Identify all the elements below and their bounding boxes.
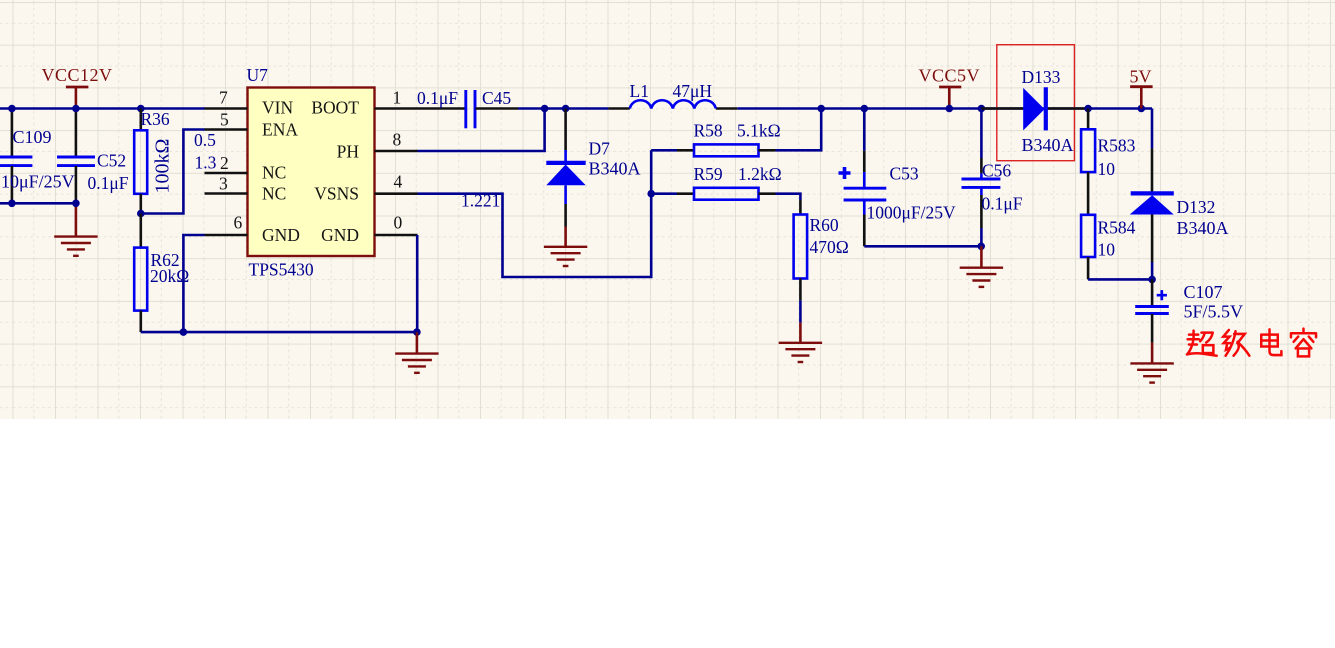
- power VCC5V: [919, 66, 981, 109]
- diode D133 B340A: [981, 67, 1088, 155]
- svg-text:GND: GND: [321, 225, 359, 245]
- resistor R59 1.2k: [651, 164, 800, 200]
- svg-text:C109: C109: [13, 127, 52, 147]
- capacitor C52: [57, 109, 129, 204]
- svg-text:L1: L1: [630, 81, 649, 101]
- svg-text:D132: D132: [1177, 197, 1216, 217]
- svg-text:1.221: 1.221: [461, 191, 500, 211]
- ground (below R60): [779, 323, 822, 362]
- svg-text:10μF/25V: 10μF/25V: [1, 172, 75, 192]
- wire: bottom ground rail: [141, 331, 417, 334]
- capacitor C107 5F/5.5V supercap: [1135, 279, 1243, 342]
- svg-text:VCC12V: VCC12V: [42, 65, 113, 85]
- svg-text:D133: D133: [1022, 67, 1061, 87]
- ground (below D7): [544, 227, 587, 267]
- svg-text:47μH: 47μH: [673, 81, 713, 101]
- wire: ENA divider path: [141, 130, 205, 214]
- resistor R583 10: [1081, 109, 1136, 215]
- pin 1 BOOT: [375, 107, 418, 110]
- wire: output cap bottom rail: [864, 245, 981, 248]
- svg-text:R58: R58: [694, 121, 723, 141]
- ground (below C107): [1130, 343, 1173, 383]
- svg-text:1000μF/25V: 1000μF/25V: [867, 203, 956, 223]
- svg-text:0.5: 0.5: [194, 130, 216, 150]
- svg-text:BOOT: BOOT: [311, 98, 359, 118]
- node C53 junction: [861, 105, 869, 113]
- wire: PH pin riser: [418, 109, 545, 152]
- pin 6 GND: [205, 234, 248, 237]
- svg-text:0.1μF: 0.1μF: [417, 88, 458, 108]
- svg-text:1.3: 1.3: [195, 153, 217, 173]
- wire: VSNS feedback path: [418, 150, 652, 277]
- node R58 riser junction: [817, 105, 825, 113]
- svg-text:B340A: B340A: [1177, 218, 1229, 238]
- resistor R584 10: [1081, 215, 1136, 280]
- svg-text:10: 10: [1098, 159, 1116, 179]
- resistor R60 470: [794, 200, 849, 323]
- node junctions on ground rail: [180, 328, 188, 336]
- node R583 junction: [1084, 105, 1092, 113]
- wire: R584 to supercap node: [1088, 278, 1152, 281]
- resistor R62: [134, 214, 189, 333]
- wire: pin 0 to ground rail: [416, 235, 419, 332]
- svg-text:5: 5: [220, 110, 229, 130]
- wire: GND pin 6 path: [183, 235, 204, 332]
- svg-text:7: 7: [219, 88, 228, 108]
- svg-text:3: 3: [219, 174, 228, 194]
- svg-text:GND: GND: [262, 225, 300, 245]
- power 5V: [1130, 67, 1153, 109]
- svg-text:8: 8: [393, 130, 402, 150]
- node supercap junction: [1148, 276, 1156, 284]
- svg-text:C45: C45: [482, 88, 511, 108]
- svg-text:B340A: B340A: [1022, 135, 1074, 155]
- svg-text:C53: C53: [890, 164, 919, 184]
- svg-text:VCC5V: VCC5V: [919, 66, 981, 86]
- annotation 超级电容 (drawn glyphs): [1187, 329, 1316, 357]
- svg-text:4: 4: [394, 172, 403, 192]
- svg-text:5.1kΩ: 5.1kΩ: [737, 121, 781, 141]
- svg-text:R36: R36: [141, 109, 170, 129]
- svg-text:0.1μF: 0.1μF: [88, 173, 129, 193]
- ground (below C52): [54, 203, 97, 256]
- pin 2 NC: [205, 172, 248, 175]
- svg-text:NC: NC: [262, 184, 286, 204]
- sheet background: [0, 0, 1335, 419]
- pin 7 VIN: [205, 107, 248, 110]
- inductor L1 47uH: [630, 81, 716, 109]
- svg-text:C56: C56: [982, 161, 1011, 181]
- capacitor C109: [0, 109, 75, 204]
- svg-text:0: 0: [394, 213, 403, 233]
- svg-text:100kΩ: 100kΩ: [152, 139, 174, 194]
- svg-text:1: 1: [393, 88, 402, 108]
- svg-text:VIN: VIN: [262, 98, 293, 118]
- capacitor C56 0.1uF: [962, 109, 1023, 247]
- IC U7 TPS5430: [247, 65, 375, 280]
- resistor R58 5.1k: [651, 109, 821, 157]
- pin 0 GND: [375, 234, 418, 237]
- wire: switch node rail: [518, 107, 608, 110]
- svg-text:1.2kΩ: 1.2kΩ: [738, 164, 782, 184]
- svg-text:B340A: B340A: [589, 159, 641, 179]
- svg-text:6: 6: [234, 213, 243, 233]
- pin 8 PH: [375, 150, 418, 153]
- pin 5 ENA: [205, 128, 248, 131]
- svg-text:R584: R584: [1098, 218, 1136, 238]
- node switch junctions: [541, 105, 549, 113]
- node 5V junction: [1138, 105, 1146, 113]
- wire: left capacitor bottom rail: [0, 202, 76, 205]
- svg-text:5F/5.5V: 5F/5.5V: [1184, 302, 1244, 322]
- svg-text:R59: R59: [694, 164, 723, 184]
- svg-text:R60: R60: [810, 215, 839, 235]
- diode D7 B340A: [546, 109, 640, 227]
- svg-text:2: 2: [220, 153, 229, 173]
- diode D132 B340A: [1130, 109, 1229, 280]
- svg-text:TPS5430: TPS5430: [249, 260, 314, 280]
- capacitor C45: [417, 88, 518, 128]
- node C56 junction: [978, 105, 986, 113]
- pin 4 VSNS: [375, 192, 418, 195]
- node VCC5V junction: [946, 105, 954, 113]
- svg-text:D7: D7: [589, 139, 611, 159]
- resistor R36: [134, 109, 173, 214]
- wire: main input rail: [0, 107, 205, 110]
- svg-text:C107: C107: [1184, 282, 1223, 302]
- pin 3 NC: [205, 192, 248, 195]
- power VCC12V: [42, 65, 113, 109]
- node output cap ground junction: [977, 243, 985, 251]
- svg-text:NC: NC: [262, 163, 286, 183]
- svg-text:R583: R583: [1098, 136, 1136, 156]
- junction R36/R62: [137, 210, 145, 218]
- svg-text:U7: U7: [247, 65, 269, 85]
- node feedback junction: [647, 190, 655, 198]
- ground (U7 GND rail): [395, 332, 438, 373]
- svg-text:ENA: ENA: [262, 120, 298, 140]
- selection box around D133: [997, 45, 1075, 161]
- svg-text:10: 10: [1098, 240, 1116, 260]
- svg-text:C52: C52: [97, 151, 126, 171]
- svg-text:PH: PH: [337, 142, 360, 162]
- ground (below C56): [960, 246, 1003, 287]
- svg-text:VSNS: VSNS: [314, 184, 359, 204]
- svg-text:0.1μF: 0.1μF: [982, 194, 1023, 214]
- svg-text:5V: 5V: [1130, 67, 1152, 87]
- svg-text:470Ω: 470Ω: [810, 237, 849, 257]
- junction dots on input rail: [8, 105, 16, 113]
- junction dots on capacitor rail: [8, 200, 16, 208]
